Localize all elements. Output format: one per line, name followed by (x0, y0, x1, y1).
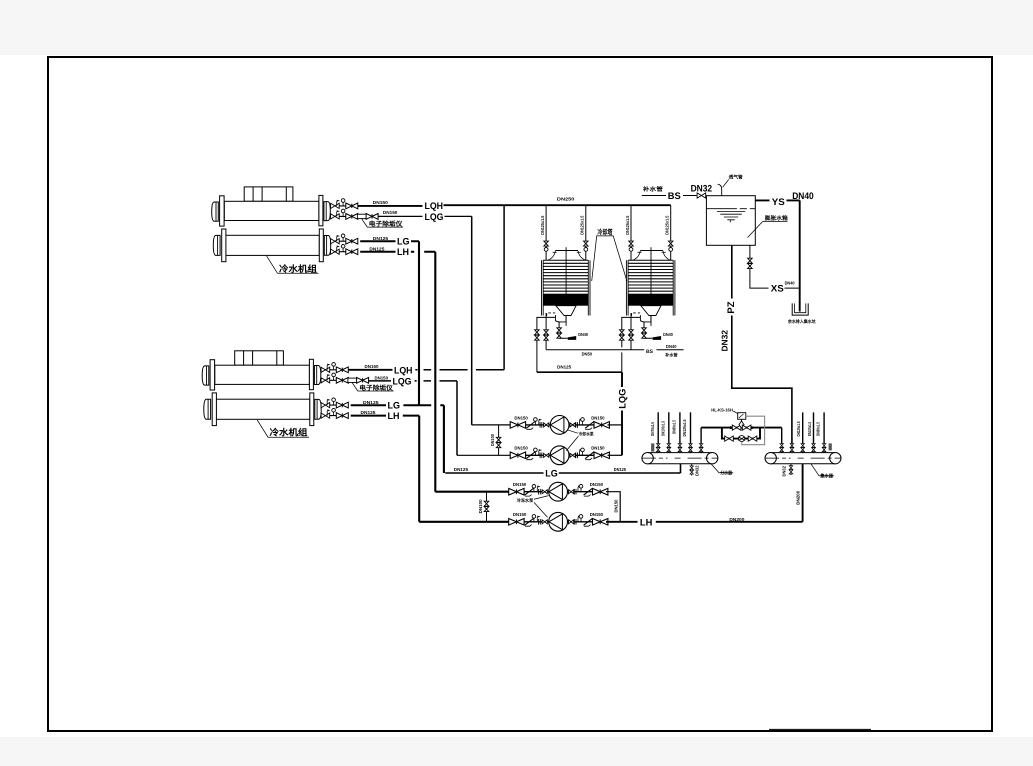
wire: chiller1 LH line (360, 251, 435, 253)
svg-text:BS: BS (668, 191, 681, 202)
svg-text:DN40: DN40 (785, 281, 796, 286)
wire: chiller1 LQH line (358, 205, 423, 207)
break in tower2 outlet at header crossing (621, 347, 624, 352)
svg-text:余水排入集水坑: 余水排入集水坑 (787, 319, 816, 324)
svg-text:集水器: 集水器 (820, 473, 834, 480)
wire: riser chiller1-LQG down to pump1 (471, 216, 473, 425)
svg-text:DN80x1.5: DN80x1.5 (815, 422, 820, 436)
svg-text:DN32: DN32 (695, 465, 700, 476)
collector PZ stub valve (port 2) (790, 444, 794, 452)
distributor riser 2 (668, 412, 670, 452)
svg-text:YS: YS (772, 197, 785, 208)
wire: riser chiller2-LQH to top header (503, 205, 505, 370)
svg-text:DN125: DN125 (454, 467, 469, 472)
svg-text:PZ: PZ (726, 301, 737, 313)
svg-text:DN32: DN32 (781, 465, 786, 476)
svg-text:DN40: DN40 (666, 344, 677, 349)
wire: tower overflow/make-up header (546, 349, 684, 351)
distributor riser 4 (690, 412, 692, 452)
svg-text:DN200: DN200 (795, 490, 800, 505)
top gray band (0, 0, 1033, 55)
svg-text:DN125: DN125 (614, 467, 627, 472)
pressure differential control valve (vertical diamond) (739, 421, 744, 428)
wire: valve to tank (705, 195, 708, 197)
collector bottom drain valve (790, 464, 792, 475)
svg-text:DN50: DN50 (582, 351, 593, 356)
svg-text:膨胀水箱: 膨胀水箱 (764, 215, 788, 222)
svg-text:DN150: DN150 (373, 200, 389, 205)
collector riser 3 (802, 412, 804, 452)
svg-text:DN150: DN150 (375, 376, 389, 381)
wire: riser chiller2-LH down to LH main (418, 416, 420, 522)
distributor bypass stub valve (699, 444, 703, 452)
svg-text:LH: LH (397, 247, 409, 258)
bypass lower valve left (725, 436, 734, 441)
distributor riser 1 (657, 412, 659, 452)
distributor sensor stub (651, 443, 654, 451)
svg-text:LH: LH (640, 518, 653, 529)
label 分水器 with leader (711, 464, 733, 473)
wire: LG main line (445, 472, 680, 474)
wire: chiller1 LQG line (378, 215, 472, 217)
wire: LH main line to collector (606, 464, 803, 522)
cooling tower 2 冷却塔 (620, 205, 675, 372)
svg-text:DN125: DN125 (363, 400, 379, 405)
wire: chiller1 LG line (360, 240, 419, 242)
bypass upper flange dot right (751, 426, 754, 429)
wire: pump3 suction from LH riser (435, 491, 508, 493)
wire: chilled pumps bypass (486, 492, 488, 522)
wire: LH main line (left of pump4) (419, 521, 509, 523)
svg-text:DN150: DN150 (613, 499, 618, 513)
svg-text:DN125x1.5: DN125x1.5 (796, 421, 801, 436)
wire: pump2 discharge (608, 454, 623, 456)
wire: LQG drop to cooling pumps (621, 372, 623, 455)
wire: tower outlet collecting line (537, 371, 622, 373)
distributor riser 4 valve (689, 444, 693, 452)
collector sensor stub (829, 443, 832, 450)
svg-text:HL-KS-16H: HL-KS-16H (711, 407, 733, 412)
svg-text:DN250: DN250 (557, 196, 575, 201)
svg-text:DN150: DN150 (383, 210, 398, 215)
tank water level symbol (717, 211, 745, 219)
drain funnel (U shape) (792, 303, 808, 315)
wire: chiller2 LH line (351, 415, 420, 417)
distributor bypass stub (riser 5) (700, 428, 702, 453)
distributor 分水器 cylinder (642, 452, 718, 463)
wire: top LQH header to towers (444, 204, 671, 206)
svg-text:XS: XS (771, 284, 784, 295)
svg-text:DN125: DN125 (361, 410, 377, 415)
pump P3 train (chilled pump 1) (509, 482, 608, 501)
svg-text:LG: LG (397, 236, 410, 247)
wire: chiller2 LQG line with breaks (368, 380, 457, 382)
svg-text:DN125: DN125 (373, 236, 389, 241)
chiller unit 2 冷水机组 (202, 351, 393, 438)
svg-text:DN150: DN150 (365, 364, 380, 369)
svg-text:LQG: LQG (425, 212, 444, 223)
svg-text:补水管: 补水管 (642, 186, 664, 193)
bypass upper valve left (732, 425, 741, 430)
valve on make-up line (697, 193, 706, 198)
svg-text:DN40: DN40 (792, 191, 814, 202)
bypass upper flange dot left (730, 426, 733, 429)
svg-text:BS: BS (646, 349, 654, 355)
label 集水器 with leader (811, 464, 834, 476)
svg-text:LQG: LQG (618, 389, 629, 409)
svg-text:DN125: DN125 (369, 247, 385, 252)
svg-text:冷冻水泵: 冷冻水泵 (517, 498, 534, 503)
svg-text:LH: LH (388, 411, 400, 422)
distributor riser 1 valve (656, 444, 660, 452)
bottom gray band (0, 737, 1033, 766)
tank water line (706, 208, 755, 210)
collector riser 5 (823, 412, 825, 452)
wire: riser chiller2-LQG down to pump2 (456, 381, 458, 455)
svg-text:DN100: DN100 (490, 434, 495, 447)
pump P2 train (cooling pump 2) (510, 446, 609, 465)
wire: make-up supply line to tank (642, 195, 697, 197)
svg-text:DN32: DN32 (719, 330, 729, 352)
svg-text:DN100: DN100 (478, 499, 483, 514)
cooling bypass valve (496, 437, 501, 447)
bypass upper valve right (742, 425, 751, 430)
wire: pump1 discharge (608, 424, 623, 426)
title block tick line bottom (769, 728, 871, 730)
svg-text:LG: LG (388, 400, 401, 411)
tank vent pipe 透气管 (718, 184, 722, 196)
svg-text:DN100x1.5: DN100x1.5 (660, 421, 665, 436)
wire: riser chiller2-LG down to LG main (443, 405, 445, 473)
distributor bottom drain valve (691, 464, 693, 476)
collector 集水器 cylinder (765, 452, 841, 463)
pump P4 train (chilled pump 2) (509, 512, 608, 531)
distributor riser 3 valve (678, 444, 682, 452)
svg-text:补水管: 补水管 (664, 353, 678, 358)
svg-text:LG: LG (545, 469, 558, 480)
gray capillary line (742, 416, 765, 445)
wire: PZ balance pipe from tank to collector (732, 245, 792, 446)
svg-text:DN32: DN32 (691, 183, 713, 194)
distributor riser 3 (679, 412, 681, 452)
wire: pump1 suction from LQG riser (472, 424, 511, 426)
svg-text:分水器: 分水器 (720, 470, 732, 477)
collector bypass stub (port 1) (781, 428, 783, 453)
wire: pump2 suction from LQG riser (457, 454, 510, 456)
wire: riser chiller1-LG down to chiller2 LG line (418, 241, 420, 405)
tank drain valve (748, 258, 753, 268)
wire: pump3 discharge to LH main (606, 492, 620, 522)
pump P1 train (cooling pump 1) (510, 415, 609, 434)
expansion water tank body (706, 196, 755, 246)
chiller unit 1 冷水机组 (212, 187, 403, 274)
svg-text:冷却水泵: 冷却水泵 (579, 431, 595, 436)
wire: YS overflow line from tank (755, 199, 799, 201)
wire: chiller2 LG line (351, 404, 444, 406)
wire: riser chiller1-LH down to pump3 (434, 252, 436, 492)
wire: cooling pumps bypass (498, 425, 500, 455)
chilled bypass valve (484, 501, 489, 511)
svg-text:DN125: DN125 (557, 365, 572, 370)
wire: tank drain with valve to XS (750, 245, 800, 288)
collector riser 4 (813, 412, 815, 452)
svg-text:LQH: LQH (394, 365, 413, 376)
bypass lower globe valve (circle) (739, 436, 745, 442)
svg-text:LQH: LQH (425, 201, 444, 212)
wire: LG main into distributor (680, 464, 682, 473)
svg-text:冷却塔: 冷却塔 (597, 227, 613, 236)
svg-text:DN70x1.5: DN70x1.5 (650, 422, 655, 436)
svg-text:透气管: 透气管 (729, 175, 743, 180)
bypass upper branch pipe (701, 427, 782, 429)
svg-text:DN125x1.5: DN125x1.5 (682, 419, 687, 436)
distributor riser 2 valve (667, 444, 671, 452)
svg-text:DN80x1.5: DN80x1.5 (672, 420, 677, 434)
differential pressure controller box HL-KS (738, 413, 746, 420)
svg-text:DN200: DN200 (729, 517, 745, 522)
wire: chiller2 LQH line with breaks (348, 369, 392, 371)
wire: overflow drop pipe to drain funnel (799, 200, 801, 311)
svg-text:LQG: LQG (393, 376, 412, 387)
cooling tower 1 冷却塔 (535, 205, 590, 372)
bypass lower valve right (748, 436, 757, 441)
bypass lower branch pipe (722, 428, 760, 439)
svg-text:DN100x1.5: DN100x1.5 (807, 422, 812, 436)
